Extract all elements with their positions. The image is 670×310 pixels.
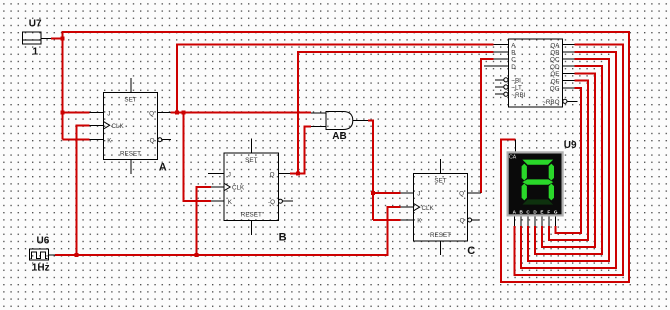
pin A J [90, 112, 104, 114]
pin AND input 2 [311, 125, 326, 127]
pin U9 segment A [513, 217, 515, 227]
pin U8 B [493, 51, 508, 53]
svg-text:~RBI: ~RBI [511, 92, 525, 99]
svg-text:~RBO: ~RBO [542, 99, 559, 106]
wire B Q up to decoder B [298, 52, 493, 174]
svg-text:SET: SET [434, 178, 446, 185]
display segment D off [522, 199, 553, 204]
wire QE to display pin E [542, 73, 595, 247]
svg-text:QE: QE [550, 71, 559, 78]
bubble A notQ [158, 138, 162, 142]
pin U8 QF [563, 80, 575, 82]
junction C J branch [371, 191, 375, 195]
pin U8 QB [563, 51, 575, 53]
svg-text:QB: QB [550, 50, 559, 57]
wire B CLK to 1Hz rail [197, 187, 211, 255]
svg-text:Q: Q [270, 171, 275, 178]
pin U9 segment E [541, 217, 543, 227]
junction B Q up branch [296, 172, 300, 176]
pin A K [90, 139, 104, 141]
svg-text:QF: QF [551, 78, 560, 85]
bubble U8 notBI [504, 78, 508, 82]
pin U8 notLT [495, 86, 504, 88]
pin U8 C [493, 58, 508, 60]
wire QC to display pin C [528, 59, 609, 261]
pin A Q [158, 112, 171, 114]
display segment B lit [549, 164, 554, 181]
svg-text:B: B [511, 50, 515, 57]
clock source U6 body [30, 249, 49, 260]
bubble U8 notLT [504, 85, 508, 89]
svg-text:F: F [547, 210, 550, 215]
pin U8 notRBI [495, 93, 504, 95]
pin AND input 1 [311, 112, 326, 114]
svg-text:U6: U6 [37, 236, 50, 247]
pin U8 QC [563, 58, 575, 60]
display segment G lit [522, 179, 553, 184]
wire net1 to A K [63, 139, 90, 141]
display segment F lit [522, 164, 527, 181]
flip-flop A pin texts [107, 97, 154, 158]
pin U8 QE [563, 72, 575, 74]
svg-text:-Q: -Q [458, 218, 465, 225]
svg-text:J: J [228, 171, 231, 178]
pin C K [400, 219, 413, 221]
pin U8 notRBO [567, 100, 577, 102]
svg-text:U9: U9 [564, 140, 577, 151]
pin AND output [353, 120, 368, 122]
svg-text:G: G [554, 210, 558, 215]
pin B Q [279, 173, 291, 175]
wire QB to display pin B [521, 52, 616, 268]
COMPONENT BODIES [23, 32, 563, 260]
bubble B notQ [278, 199, 282, 203]
logic constant U7 body [23, 32, 42, 44]
pin B CLK [211, 186, 224, 188]
junction U7 node [61, 36, 65, 40]
wire A Q to AND input [171, 112, 312, 114]
flip-flop C clock chevron [414, 203, 420, 210]
wire QG to display pin G [556, 88, 581, 233]
pin U9 CA [515, 140, 517, 152]
display segment E lit [522, 184, 527, 201]
pin B SET [250, 139, 252, 153]
junction 1Hz at B CLK [195, 253, 199, 257]
pin A notQ [162, 139, 171, 141]
bubble U8 notRBI [504, 92, 508, 96]
junction A Q up branch [175, 111, 179, 115]
svg-text:C: C [511, 57, 516, 64]
wire A CLK to 1Hz rail [76, 125, 89, 255]
svg-text:Q: Q [149, 110, 154, 117]
pin U9 segment C [527, 217, 529, 227]
pin U8 QD [563, 65, 575, 67]
wire AND output down to C J and K [368, 121, 373, 220]
pin A SET [130, 78, 132, 92]
svg-text:1Hz: 1Hz [32, 263, 50, 274]
svg-text:J: J [107, 110, 110, 117]
display U9 frame [507, 151, 564, 216]
wire QD to display pin D [535, 66, 602, 254]
junction A J branch [61, 111, 65, 115]
pin U9 segment G [555, 217, 557, 227]
svg-text:B: B [279, 232, 287, 244]
wire to C J [373, 192, 400, 194]
wire net1 down from junction to A K level [62, 38, 64, 139]
svg-text:-Q: -Q [148, 137, 155, 144]
wire net1 branch to A J [63, 112, 90, 114]
svg-text:1: 1 [33, 47, 39, 58]
svg-text:U7: U7 [29, 19, 42, 30]
junction A Q down branch [182, 111, 186, 115]
pin C RESET [440, 241, 442, 255]
svg-text:D: D [511, 64, 516, 71]
display segment C lit [549, 184, 554, 201]
svg-text:CLK: CLK [112, 123, 125, 130]
junction 1Hz at A CLK [74, 253, 78, 257]
pin B J [208, 173, 224, 175]
wire net1 rail: junction up, top rail, right vertical, bottom, left vertical, to display CA [63, 32, 630, 282]
svg-text:QC: QC [550, 57, 560, 64]
pin U9 segment D [534, 217, 536, 227]
pin A RESET [130, 160, 132, 175]
pin U9 segment B [520, 217, 522, 227]
svg-text:AB: AB [332, 131, 346, 142]
svg-text:C: C [467, 245, 475, 257]
flip-flop C body [414, 174, 468, 242]
pin C notQ [472, 219, 480, 221]
pin C CLK [400, 206, 413, 208]
wire QA to display pin A [514, 45, 623, 275]
svg-text:RESET: RESET [241, 212, 262, 219]
pin U8 QA [563, 44, 575, 46]
wire A Q up to decoder A [177, 45, 494, 113]
flip-flop C pin texts [417, 178, 464, 240]
svg-text:A: A [159, 162, 167, 174]
svg-text:RESET: RESET [430, 232, 451, 239]
wire A Q down to B K [184, 113, 211, 202]
pin U9 segment F [548, 217, 550, 227]
flip-flop A clock chevron [104, 122, 110, 129]
BUBBLES [158, 78, 567, 222]
flip-flop B clock chevron [224, 183, 230, 190]
pin U8 D [484, 65, 509, 67]
wire QF to display pin F [549, 81, 588, 240]
svg-text:SET: SET [245, 157, 257, 164]
pin B notQ [283, 200, 294, 202]
svg-text:RESET: RESET [120, 151, 141, 158]
pin U8 A [493, 44, 508, 46]
svg-text:CLK: CLK [232, 185, 245, 192]
svg-text:-Q: -Q [268, 199, 275, 206]
svg-text:CLK: CLK [422, 205, 435, 212]
decoder U8 pin texts [511, 42, 560, 106]
svg-text:QD: QD [550, 64, 560, 71]
pin U7 output [41, 37, 51, 39]
flip-flop B pin texts [228, 157, 275, 219]
wire B Q to AND lower input [290, 126, 311, 173]
display segment A lit [522, 160, 553, 165]
pin C SET [440, 159, 442, 173]
svg-text:SET: SET [124, 97, 136, 104]
wire 1Hz rail from U6 to C CLK riser [55, 207, 400, 255]
pin A CLK [90, 124, 104, 126]
svg-text:Q: Q [459, 191, 464, 198]
svg-text:E: E [540, 210, 543, 215]
svg-text:CA: CA [509, 154, 517, 160]
decoder U8 body [508, 39, 562, 107]
pin B K [211, 200, 224, 202]
7-SEGMENT DISPLAY U9 [507, 151, 564, 216]
flip-flop A body [104, 93, 158, 160]
bubble U8 notRBO [563, 99, 567, 103]
svg-text:J: J [417, 191, 420, 198]
svg-text:QG: QG [550, 86, 560, 93]
pin B RESET [250, 221, 252, 236]
pin C Q [468, 192, 482, 194]
pin U8 notBI [495, 79, 504, 81]
wire to C K [373, 219, 400, 221]
flip-flop B body [224, 153, 279, 221]
and-gate AB body [326, 112, 353, 130]
svg-text:QA: QA [550, 42, 560, 49]
pin C J [400, 192, 413, 194]
wire U7 output to junction [51, 37, 63, 39]
pin U8 QG [563, 87, 575, 89]
wire C Q up to decoder C [481, 59, 493, 193]
svg-text:~LT: ~LT [511, 85, 522, 92]
BLACK PIN STUBS [41, 38, 577, 255]
bubble C notQ [468, 218, 472, 222]
pin U6 output [49, 254, 56, 256]
svg-text:~BI: ~BI [511, 78, 521, 85]
